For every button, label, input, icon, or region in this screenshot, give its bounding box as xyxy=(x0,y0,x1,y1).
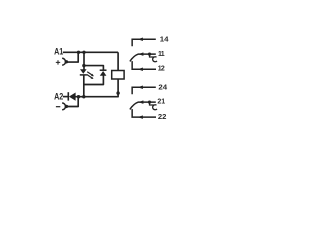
contact 2: terminal 22 line xyxy=(132,109,166,121)
clamp terminal 21 xyxy=(150,102,155,105)
clamp terminal A2 xyxy=(62,103,65,110)
junction node LED top rail xyxy=(82,64,85,67)
svg-text:22: 22 xyxy=(158,113,167,122)
LED D2 xyxy=(80,69,94,79)
LED arrows xyxy=(87,72,94,79)
svg-text:24: 24 xyxy=(158,83,168,91)
relay coil K xyxy=(112,71,124,80)
clamp terminal 11 xyxy=(150,54,155,57)
wire LED-diode bottom rail xyxy=(84,76,104,85)
junction node A2-LED xyxy=(82,95,85,98)
contact 2: common 21 lever xyxy=(130,99,165,110)
clamp terminal A1 xyxy=(62,58,65,65)
junction node A1-LED xyxy=(82,51,85,54)
wire rail to freewheel diode xyxy=(84,66,104,71)
wire LED bottom to A2 rail xyxy=(83,75,85,97)
wire clamp A1 riser xyxy=(66,52,78,62)
diode D1 series at A2 xyxy=(68,92,75,101)
contact 1: terminal 12 line xyxy=(132,61,165,72)
junction node A1-clamp xyxy=(77,51,80,54)
contact 1: terminal 14 line xyxy=(132,35,169,46)
diode D3 freewheel xyxy=(100,70,107,76)
wire clamp A2 riser xyxy=(66,97,78,107)
wire A2 rail to coil xyxy=(75,79,118,97)
junction node coil wire xyxy=(116,91,119,94)
polarity minus xyxy=(56,106,60,108)
contact 1: common 11 lever xyxy=(130,51,165,62)
svg-text:1: 1 xyxy=(161,51,165,58)
contact 2: terminal 24 line xyxy=(132,83,168,94)
svg-text:1: 1 xyxy=(161,99,165,106)
polarity plus xyxy=(56,60,60,64)
svg-text:14: 14 xyxy=(160,35,170,43)
wire A1 rail xyxy=(63,51,118,53)
svg-text:A2: A2 xyxy=(54,92,64,102)
wire LED branch top xyxy=(83,52,85,69)
junction node A2-clamp xyxy=(77,95,80,98)
wire A1 corner down to coil xyxy=(117,52,119,70)
svg-text:2: 2 xyxy=(161,66,165,73)
svg-text:A1: A1 xyxy=(54,47,64,57)
wire A2 label line xyxy=(63,96,68,98)
